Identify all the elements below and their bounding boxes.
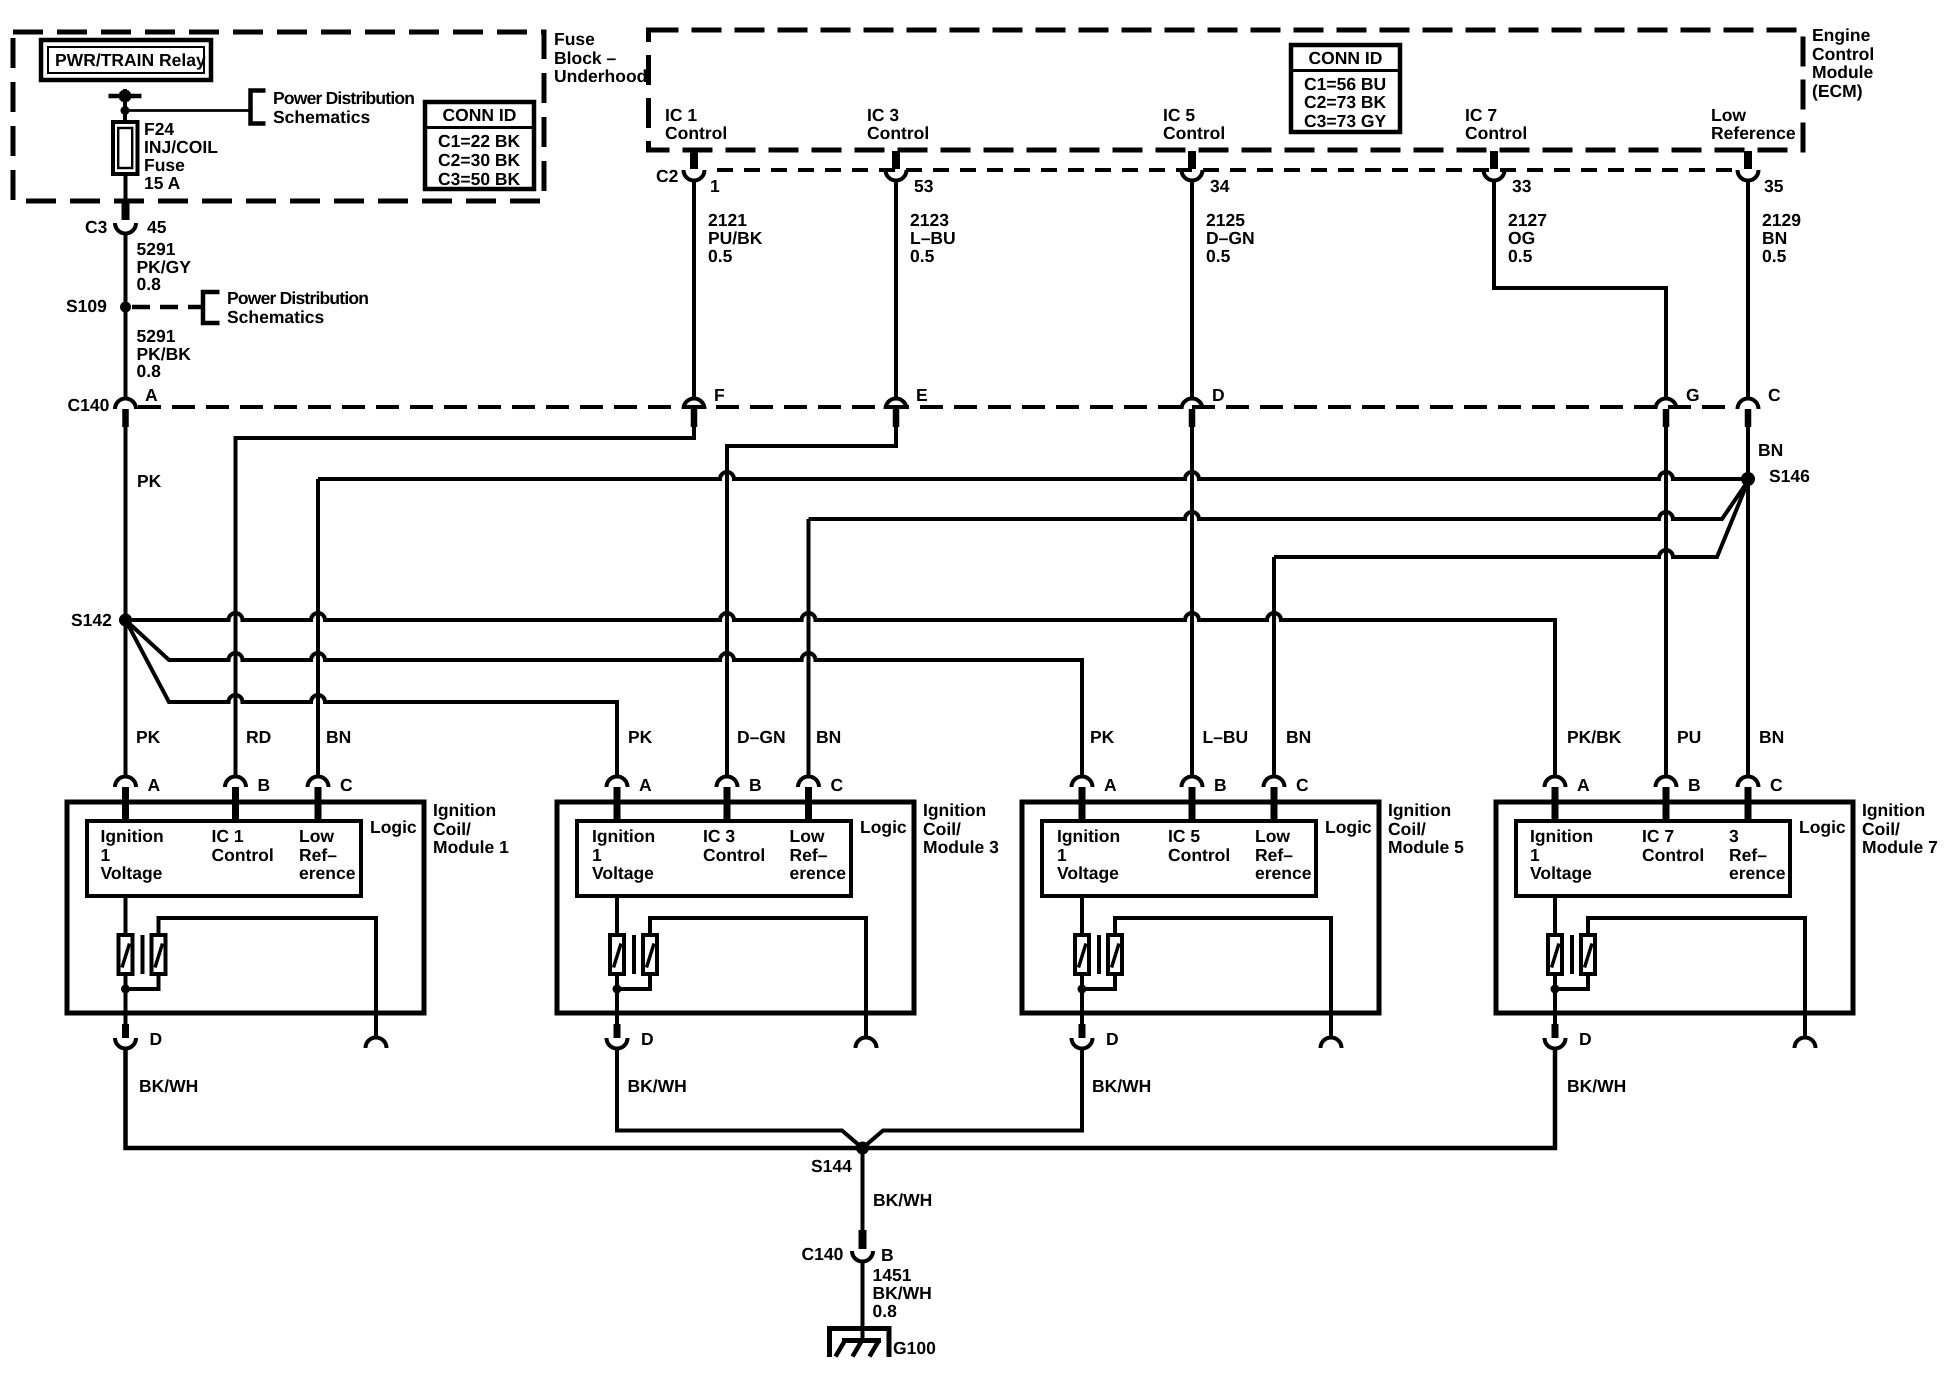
svg-text:Low: Low	[1711, 105, 1746, 125]
module 7 secondary winding	[1581, 935, 1595, 974]
label: Ignition Coil/Module 5	[1388, 800, 1464, 857]
module 7 logic input box	[1516, 821, 1790, 896]
svg-text:F24: F24	[144, 119, 174, 139]
svg-text:BK/WH: BK/WH	[873, 1190, 932, 1210]
wire: C140 G to module 7 pin B (PU)	[1664, 427, 1668, 777]
svg-text:C: C	[1770, 775, 1783, 795]
svg-text:erence: erence	[299, 863, 356, 883]
svg-text:2121: 2121	[708, 210, 747, 230]
wire 2121 PU/BK 0.5	[694, 181, 763, 400]
svg-text:B: B	[1688, 775, 1701, 795]
svg-text:34: 34	[1210, 176, 1230, 196]
svg-text:Control: Control	[1642, 845, 1704, 865]
svg-text:C3=73 GY: C3=73 GY	[1304, 111, 1387, 131]
svg-text:Logic: Logic	[370, 817, 417, 837]
svg-text:PK: PK	[1090, 727, 1115, 747]
svg-text:BN: BN	[1758, 440, 1783, 460]
module 7 secondary output wire to spark pin	[1588, 918, 1805, 1013]
svg-text:3: 3	[1729, 826, 1739, 846]
svg-text:Ignition: Ignition	[1862, 800, 1925, 820]
svg-text:0.5: 0.5	[910, 246, 935, 266]
label: Ignition Coil/Module 3	[923, 800, 999, 857]
module 7 spark output pin	[1795, 1013, 1816, 1048]
connector C140 dotted interface line	[68, 395, 1737, 415]
module 3 secondary winding	[643, 935, 657, 974]
svg-text:G100: G100	[893, 1338, 936, 1358]
svg-text:Control: Control	[212, 845, 274, 865]
module 3 secondary output wire to spark pin	[650, 918, 866, 1013]
module 5 spark output pin	[1321, 1013, 1342, 1048]
svg-text:D: D	[1212, 385, 1225, 405]
svg-text:Module 7: Module 7	[1862, 837, 1938, 857]
svg-text:erence: erence	[1729, 863, 1786, 883]
svg-text:BN: BN	[816, 727, 841, 747]
svg-text:D: D	[641, 1029, 654, 1049]
svg-text:1451: 1451	[873, 1265, 912, 1285]
svg-text:PU: PU	[1677, 727, 1701, 747]
connector C140 pin D	[1182, 385, 1225, 427]
connector C2 pin 53	[886, 151, 934, 196]
connector C140 pin B	[802, 1230, 894, 1265]
svg-text:S146: S146	[1769, 466, 1810, 486]
module 7 core	[1570, 935, 1574, 974]
module 7 internal ground junction	[1551, 974, 1589, 1024]
wire: C140 F to module 1 pin B (RD)	[236, 427, 695, 777]
wire: C140 D to module 5 pin B (L-BU)	[1190, 427, 1194, 777]
svg-text:1: 1	[710, 176, 720, 196]
module 5 internal ground junction	[1078, 974, 1116, 1024]
svg-text:2127: 2127	[1508, 210, 1547, 230]
label: F24 INJ/COIL Fuse 15 A	[144, 119, 218, 193]
splice S109	[66, 296, 131, 316]
svg-text:D: D	[1579, 1029, 1592, 1049]
svg-text:53: 53	[914, 176, 934, 196]
wire PK: S142 to module 5 pin A	[126, 620, 1083, 777]
svg-text:Control: Control	[867, 123, 929, 143]
svg-text:B: B	[881, 1245, 894, 1265]
svg-text:BK/WH: BK/WH	[139, 1076, 198, 1096]
reference bracket: Power Distribution Schematics (S109)	[132, 288, 368, 327]
connector C140 pin G	[1656, 385, 1700, 427]
connector C2 dotted interface line	[656, 166, 1738, 186]
svg-text:Ignition: Ignition	[1530, 826, 1593, 846]
svg-text:BK/WH: BK/WH	[1567, 1076, 1626, 1096]
module 3 spark output pin	[856, 1013, 877, 1048]
wire: C140 E to module 3 pin B (D-GN)	[727, 427, 896, 777]
wire BN: S146 to module 3 pin C	[809, 481, 1749, 777]
svg-text:(ECM): (ECM)	[1812, 81, 1863, 101]
svg-text:Module 1: Module 1	[433, 837, 509, 857]
module 5 core	[1097, 935, 1101, 974]
ignition coil/module 5 pin C	[1264, 775, 1310, 821]
svg-text:15 A: 15 A	[144, 173, 181, 193]
ignition coil/module 3 pin A	[607, 775, 653, 821]
relay pin contact bar with X terminal	[109, 92, 142, 101]
wire BN: C140 C through splice S146 to module 7 pin C	[1748, 427, 1783, 777]
svg-text:Logic: Logic	[1325, 817, 1372, 837]
svg-text:A: A	[148, 775, 161, 795]
ignition coil/module 7 pin B	[1656, 775, 1701, 821]
svg-text:C: C	[831, 775, 844, 795]
wire colour labels row	[136, 727, 161, 747]
svg-text:Coil/: Coil/	[433, 819, 471, 839]
svg-text:BK/WH: BK/WH	[628, 1076, 687, 1096]
svg-text:IC 1: IC 1	[665, 105, 697, 125]
connector C2 pin 1	[684, 151, 721, 196]
ignition coil/module 7 pin A	[1545, 775, 1591, 821]
module 7 primary winding	[1548, 896, 1562, 974]
svg-text:G: G	[1686, 385, 1700, 405]
wire 2125 D-GN 0.5	[1192, 181, 1255, 400]
svg-text:Control: Control	[1163, 123, 1225, 143]
wire: relay to fuse F24	[123, 89, 127, 122]
svg-text:BN: BN	[1759, 727, 1784, 747]
ignition coil/module 1 box	[67, 802, 424, 1013]
svg-text:Low: Low	[1255, 826, 1290, 846]
wire BK/WH: module 3 D to splice S144	[617, 1049, 860, 1147]
svg-text:F: F	[714, 385, 725, 405]
svg-text:Ignition: Ignition	[923, 800, 986, 820]
ignition coil/module 7 box	[1496, 802, 1853, 1013]
svg-text:BN: BN	[1286, 727, 1311, 747]
svg-text:Logic: Logic	[1799, 817, 1846, 837]
ECM output: Low Reference	[1711, 105, 1796, 143]
connector C140 pin A	[115, 385, 158, 427]
svg-text:IC 7: IC 7	[1642, 826, 1674, 846]
module 1 spark output pin	[366, 1013, 387, 1048]
svg-text:Low: Low	[790, 826, 825, 846]
svg-text:Module 5: Module 5	[1388, 837, 1464, 857]
svg-text:C2: C2	[656, 166, 679, 186]
svg-text:Underhood: Underhood	[554, 66, 647, 86]
svg-text:C: C	[340, 775, 353, 795]
wire 2127 OG 0.5	[1494, 181, 1666, 400]
relay K: PWR/TRAIN Relay	[41, 40, 211, 80]
module 3 pin D	[607, 1024, 654, 1049]
module 1 logic input box	[87, 821, 361, 896]
svg-text:0.8: 0.8	[137, 361, 162, 381]
svg-text:Fuse: Fuse	[144, 155, 185, 175]
ground G100	[830, 1329, 937, 1359]
wire PK: S142 to module 3 pin A	[126, 620, 618, 777]
svg-text:A: A	[639, 775, 652, 795]
svg-text:Voltage: Voltage	[1530, 863, 1592, 883]
wire 5291 PK/GY 0.8	[126, 233, 192, 302]
svg-text:PK: PK	[628, 727, 653, 747]
svg-text:S142: S142	[71, 610, 112, 630]
ignition coil/module 5 pin B	[1182, 775, 1227, 821]
ECM dashed enclosure	[649, 30, 1804, 150]
svg-text:C3=50 BK: C3=50 BK	[438, 169, 521, 189]
wire PK: S142 to module 1 pin A	[124, 620, 128, 777]
svg-text:0.5: 0.5	[708, 246, 733, 266]
svg-text:D–GN: D–GN	[737, 727, 786, 747]
module 1 secondary winding	[152, 935, 166, 974]
conn id table (ECM)	[1291, 45, 1400, 132]
svg-text:D: D	[1106, 1029, 1119, 1049]
svg-text:D–GN: D–GN	[1206, 228, 1255, 248]
svg-text:A: A	[1577, 775, 1590, 795]
svg-text:Module: Module	[1812, 62, 1874, 82]
module 1 secondary output wire to spark pin	[159, 918, 377, 1013]
svg-text:BN: BN	[326, 727, 351, 747]
wire BK/WH: module 5 D to splice S144	[865, 1049, 1151, 1147]
svg-text:BK/WH: BK/WH	[873, 1283, 932, 1303]
svg-text:Block –: Block –	[554, 48, 617, 68]
ignition coil/module 1 pin B	[225, 775, 270, 821]
svg-text:1: 1	[1057, 845, 1067, 865]
svg-text:Power Distribution: Power Distribution	[273, 88, 414, 108]
svg-text:Ref–: Ref–	[299, 845, 337, 865]
svg-text:45: 45	[147, 217, 167, 237]
connector C3 pin 45	[85, 201, 167, 237]
svg-text:RD: RD	[246, 727, 271, 747]
svg-text:Coil/: Coil/	[923, 819, 961, 839]
svg-text:0.8: 0.8	[873, 1301, 898, 1321]
svg-text:C3: C3	[85, 217, 108, 237]
module 5 secondary output wire to spark pin	[1115, 918, 1331, 1013]
wire BK/WH: S144 to C140 B	[863, 1148, 933, 1230]
module 7 pin D	[1545, 1024, 1592, 1049]
ECM output: IC 3 Control	[867, 105, 929, 143]
svg-text:B: B	[749, 775, 762, 795]
svg-text:A: A	[1104, 775, 1117, 795]
svg-text:E: E	[916, 385, 928, 405]
svg-text:CONN ID: CONN ID	[1309, 48, 1383, 68]
svg-text:PK: PK	[136, 727, 161, 747]
splice S142	[71, 610, 132, 630]
ignition coil/module 5 box	[1022, 802, 1379, 1013]
svg-text:D: D	[150, 1029, 163, 1049]
svg-text:PWR/TRAIN Relay: PWR/TRAIN Relay	[55, 50, 206, 70]
ignition coil/module 5 pin A	[1072, 775, 1118, 821]
svg-text:Ignition: Ignition	[433, 800, 496, 820]
ignition coil/module 3 box	[557, 802, 914, 1013]
module 1 primary winding	[119, 896, 133, 974]
svg-text:Control: Control	[1465, 123, 1527, 143]
svg-text:IC 3: IC 3	[867, 105, 899, 125]
svg-text:0.5: 0.5	[1206, 246, 1231, 266]
svg-text:Coil/: Coil/	[1862, 819, 1900, 839]
svg-text:Ref–: Ref–	[1255, 845, 1293, 865]
svg-text:CONN ID: CONN ID	[443, 105, 517, 125]
svg-text:Coil/: Coil/	[1388, 819, 1426, 839]
svg-text:Logic: Logic	[860, 817, 907, 837]
svg-text:Schematics: Schematics	[273, 107, 371, 127]
svg-text:S144: S144	[811, 1156, 852, 1176]
svg-text:0.5: 0.5	[1508, 246, 1533, 266]
connector C2 pin 35	[1738, 151, 1784, 196]
ignition coil/module 7 pin C	[1738, 775, 1784, 821]
module 5 pin D	[1072, 1024, 1119, 1049]
svg-text:L–BU: L–BU	[910, 228, 956, 248]
svg-text:BK/WH: BK/WH	[1092, 1076, 1151, 1096]
svg-text:1: 1	[1530, 845, 1540, 865]
module 1 core	[141, 935, 145, 974]
connector C140 pin C	[1738, 385, 1782, 427]
module 3 internal ground junction	[613, 974, 651, 1024]
module 5 primary winding	[1075, 896, 1089, 974]
svg-text:B: B	[258, 775, 271, 795]
wire 2129 BN 0.5	[1748, 181, 1801, 400]
svg-text:Engine: Engine	[1812, 25, 1871, 45]
svg-text:C: C	[1768, 385, 1781, 405]
svg-text:IC 1: IC 1	[212, 826, 244, 846]
svg-text:BN: BN	[1762, 228, 1787, 248]
svg-text:Ref–: Ref–	[790, 845, 828, 865]
module 5 secondary winding	[1108, 935, 1122, 974]
svg-text:Low: Low	[299, 826, 334, 846]
svg-text:Control: Control	[1812, 44, 1874, 64]
svg-text:IC 3: IC 3	[703, 826, 735, 846]
svg-text:Ignition: Ignition	[1057, 826, 1120, 846]
connector C140 pin E	[886, 385, 928, 427]
svg-text:33: 33	[1512, 176, 1532, 196]
label: Engine Control Module (ECM)	[1812, 25, 1874, 101]
svg-text:C2=30 BK: C2=30 BK	[438, 150, 521, 170]
label: Fuse Block - Underhood	[554, 29, 647, 86]
connector C140 pin F	[684, 385, 726, 427]
svg-text:erence: erence	[790, 863, 847, 883]
svg-text:2129: 2129	[1762, 210, 1801, 230]
wire 1451 BK/WH 0.8	[863, 1261, 932, 1340]
svg-text:C: C	[1296, 775, 1309, 795]
svg-text:Ref–: Ref–	[1729, 845, 1767, 865]
svg-text:IC 7: IC 7	[1465, 105, 1497, 125]
label: Ignition Coil/Module 1	[433, 800, 509, 857]
svg-text:Ignition: Ignition	[101, 826, 164, 846]
svg-text:0.5: 0.5	[1762, 246, 1787, 266]
svg-text:PK: PK	[137, 471, 162, 491]
svg-text:S109: S109	[66, 296, 107, 316]
svg-text:Fuse: Fuse	[554, 29, 595, 49]
svg-text:Ignition: Ignition	[592, 826, 655, 846]
splice S146	[1741, 466, 1810, 486]
svg-text:IC 5: IC 5	[1163, 105, 1195, 125]
svg-text:PU/BK: PU/BK	[708, 228, 763, 248]
wire 5291 PK/BK 0.8	[126, 307, 192, 398]
ignition coil/module 1 pin A	[115, 775, 161, 821]
ignition coil/module 3 pin B	[717, 775, 762, 821]
module 3 logic input box	[577, 821, 851, 896]
svg-text:1: 1	[101, 845, 111, 865]
svg-text:C140: C140	[68, 395, 110, 415]
svg-text:Module 3: Module 3	[923, 837, 999, 857]
module 1 internal ground junction	[121, 974, 159, 1024]
svg-text:Control: Control	[665, 123, 727, 143]
svg-text:IC 5: IC 5	[1168, 826, 1200, 846]
wire BN: S146 to module 5 pin C	[1274, 482, 1748, 778]
svg-text:Power Distribution: Power Distribution	[227, 288, 368, 308]
svg-text:2123: 2123	[910, 210, 949, 230]
svg-text:C2=73 BK: C2=73 BK	[1304, 92, 1387, 112]
svg-text:2125: 2125	[1206, 210, 1245, 230]
reference bracket: Power Distribution Schematics (top)	[251, 88, 415, 127]
label: Ignition Coil/Module 7	[1862, 800, 1938, 857]
svg-text:C1=56 BU: C1=56 BU	[1304, 74, 1386, 94]
svg-text:Schematics: Schematics	[227, 307, 325, 327]
wire PK: S142 to module 7 pin A (PK/BK)	[126, 613, 1556, 777]
ignition coil/module 3 pin C	[798, 775, 844, 821]
svg-text:Control: Control	[703, 845, 765, 865]
ECM output: IC 5 Control	[1163, 105, 1225, 143]
svg-text:C140: C140	[802, 1244, 844, 1264]
svg-text:OG: OG	[1508, 228, 1535, 248]
svg-text:0.8: 0.8	[137, 274, 162, 294]
svg-text:35: 35	[1764, 176, 1784, 196]
svg-text:C1=22 BK: C1=22 BK	[438, 131, 521, 151]
connector C2 pin 34	[1182, 151, 1230, 196]
svg-text:Voltage: Voltage	[592, 863, 654, 883]
module 1 pin D	[115, 1024, 162, 1049]
module 3 core	[632, 935, 636, 974]
svg-text:1: 1	[592, 845, 602, 865]
svg-text:INJ/COIL: INJ/COIL	[144, 137, 218, 157]
node: junction to power distribution reference	[121, 106, 251, 115]
module 3 primary winding	[610, 896, 624, 974]
svg-text:Voltage: Voltage	[101, 863, 163, 883]
ignition coil/module 1 pin C	[308, 775, 354, 821]
svg-text:Voltage: Voltage	[1057, 863, 1119, 883]
wire: fuse to connector C3	[124, 174, 128, 201]
wire PK: C140 A to splice S142	[126, 427, 162, 614]
svg-text:A: A	[145, 385, 158, 405]
connector C2 pin 33	[1484, 151, 1532, 196]
svg-text:Reference: Reference	[1711, 123, 1796, 143]
svg-text:L–BU: L–BU	[1203, 727, 1249, 747]
svg-text:B: B	[1214, 775, 1227, 795]
splice S144	[811, 1142, 869, 1177]
fuse F24 INJ/COIL 15 A	[113, 122, 138, 174]
wire 2123 L-BU 0.5	[896, 181, 956, 400]
svg-text:PK/BK: PK/BK	[1567, 727, 1622, 747]
svg-text:erence: erence	[1255, 863, 1312, 883]
ECM output: IC 7 Control	[1465, 105, 1527, 143]
wire BN: S146 to module 1 pin C	[318, 472, 1748, 777]
module 5 logic input box	[1042, 821, 1316, 896]
svg-text:Control: Control	[1168, 845, 1230, 865]
ECM output: IC 1 Control	[665, 105, 727, 143]
conn id table (fuse block)	[425, 102, 534, 189]
fuse block underhood dashed enclosure	[13, 32, 544, 201]
wire BK/WH: module 1 D and module 7 D ground bus	[126, 1049, 1627, 1149]
svg-text:Ignition: Ignition	[1388, 800, 1451, 820]
